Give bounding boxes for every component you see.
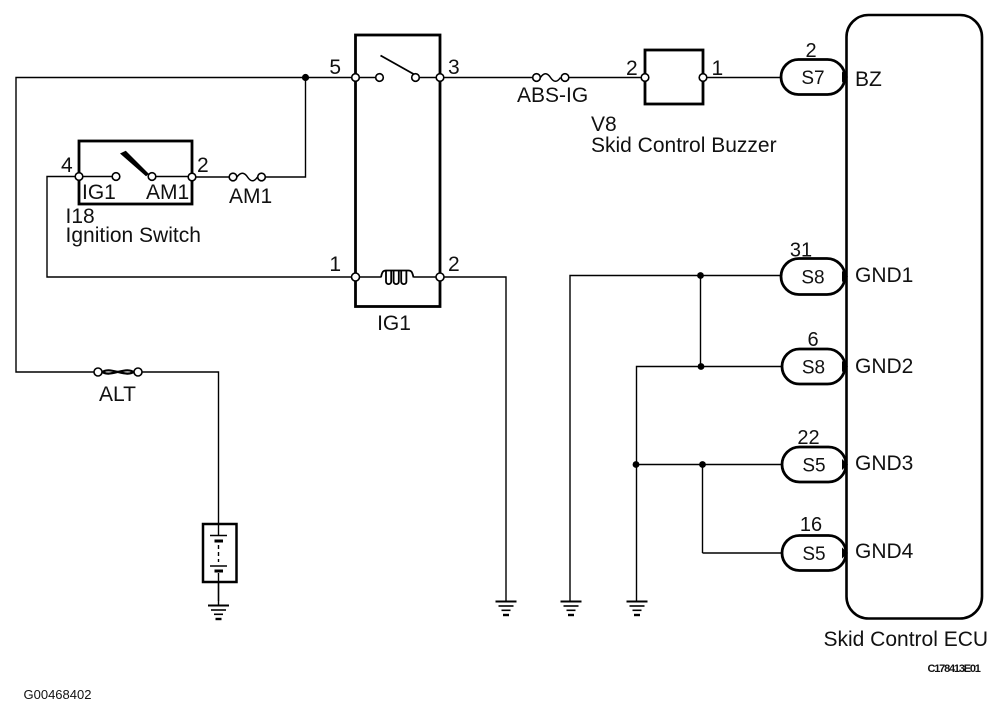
svg-text:IG1: IG1 (377, 312, 411, 335)
svg-text:S5: S5 (802, 544, 825, 565)
svg-text:V8: V8 (591, 113, 617, 136)
svg-text:2: 2 (805, 40, 816, 62)
svg-text:Ignition Switch: Ignition Switch (66, 224, 201, 247)
svg-text:S8: S8 (801, 268, 824, 289)
svg-text:31: 31 (790, 240, 812, 262)
svg-text:Skid Control ECU: Skid Control ECU (824, 628, 989, 651)
svg-text:AM1: AM1 (229, 185, 272, 208)
svg-text:GND2: GND2 (855, 355, 913, 378)
svg-text:GND1: GND1 (855, 264, 913, 287)
svg-text:AM1: AM1 (146, 181, 189, 204)
svg-text:5: 5 (329, 56, 341, 79)
svg-text:C178413E01: C178413E01 (928, 663, 981, 675)
svg-text:ALT: ALT (99, 383, 136, 406)
svg-text:16: 16 (800, 514, 822, 536)
svg-text:S7: S7 (801, 68, 824, 89)
svg-text:2: 2 (197, 154, 209, 177)
svg-text:S8: S8 (802, 358, 825, 379)
svg-text:1: 1 (712, 57, 724, 80)
svg-text:IG1: IG1 (82, 181, 116, 204)
svg-text:S5: S5 (802, 456, 825, 477)
svg-text:2: 2 (448, 253, 460, 276)
svg-text:2: 2 (626, 57, 638, 80)
svg-text:BZ: BZ (855, 68, 882, 91)
svg-text:6: 6 (807, 329, 818, 351)
svg-text:ABS-IG: ABS-IG (517, 84, 588, 107)
svg-text:G00468402: G00468402 (24, 687, 92, 702)
svg-text:GND4: GND4 (855, 540, 914, 563)
svg-text:3: 3 (448, 56, 460, 79)
svg-text:Skid Control Buzzer: Skid Control Buzzer (591, 134, 777, 157)
svg-text:GND3: GND3 (855, 452, 913, 475)
svg-text:1: 1 (329, 253, 341, 276)
svg-text:22: 22 (797, 427, 819, 449)
svg-text:4: 4 (61, 154, 73, 177)
